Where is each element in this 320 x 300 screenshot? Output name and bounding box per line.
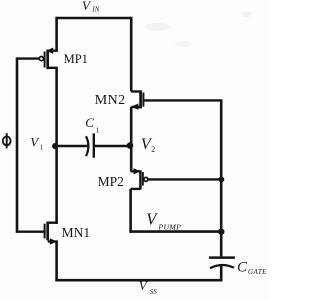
svg-text:1: 1 xyxy=(96,125,100,134)
node V1 label xyxy=(30,134,44,151)
net VPUMP label xyxy=(146,209,181,231)
wire VSS rail xyxy=(55,279,222,282)
svg-text:V: V xyxy=(82,0,92,13)
node V2 junction dot xyxy=(127,142,134,149)
svg-text:GATE: GATE xyxy=(248,268,267,276)
svg-text:SS: SS xyxy=(150,288,158,296)
transistor MP2 xyxy=(131,168,222,189)
wire phi vertical line xyxy=(16,57,19,233)
wire left column bottom (MN1 source to VSS) xyxy=(55,242,58,282)
wire right column (MN2 gate down to CGATE) xyxy=(220,99,223,256)
label CGATE xyxy=(237,259,267,276)
transistor MN1 xyxy=(17,222,58,245)
wire MP2 source down to VPUMP rail xyxy=(129,189,132,233)
wire C1 left lead xyxy=(57,145,88,148)
svg-text:V: V xyxy=(146,209,158,228)
junction dot MP2 gate on right column xyxy=(219,177,225,183)
svg-text:IN: IN xyxy=(91,6,99,14)
wire left column middle (MP1 source to MN1 drain, through node V1) xyxy=(55,68,58,224)
svg-text:2: 2 xyxy=(151,145,155,154)
net VSS label xyxy=(139,278,158,296)
net VIN label xyxy=(82,0,100,14)
svg-text:1: 1 xyxy=(40,144,44,152)
node V1 junction dot xyxy=(52,143,58,149)
net phi label xyxy=(3,133,11,148)
svg-text:C: C xyxy=(237,259,248,275)
wire middle column upper (VIN to MN2 drain) xyxy=(130,17,133,92)
label C1 xyxy=(85,115,100,134)
node V2 label xyxy=(141,136,155,154)
wire C1 right lead xyxy=(95,145,131,148)
transistor MP1 xyxy=(17,48,58,70)
transistor MN2 xyxy=(131,90,221,110)
svg-text:V: V xyxy=(30,134,40,149)
junction dot VPUMP on right column xyxy=(218,229,224,235)
svg-text:PUMP: PUMP xyxy=(157,223,181,232)
svg-text:C: C xyxy=(85,115,94,130)
wire left column top (VIN to MP1 drain) xyxy=(55,17,58,51)
wire VIN rail xyxy=(56,17,132,20)
wire VPUMP rail xyxy=(129,230,221,233)
svg-text:MP2: MP2 xyxy=(98,174,124,189)
capacitor C1 xyxy=(86,133,94,157)
wire CGATE bottom lead to VSS xyxy=(220,265,223,282)
svg-text:MN2: MN2 xyxy=(95,93,126,108)
svg-text:MP1: MP1 xyxy=(64,52,88,66)
svg-text:MN1: MN1 xyxy=(62,225,91,240)
wire middle column lower (MN2 source to MP2 drain, through node V2) xyxy=(130,107,133,172)
capacitor CGATE xyxy=(209,258,235,269)
